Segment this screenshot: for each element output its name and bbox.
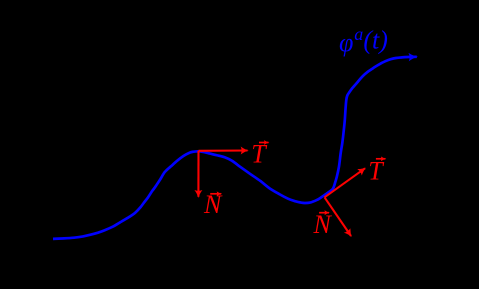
vector N2 [325,197,352,236]
wire curve phi^a(t) [53,57,417,239]
svg-text:T: T [368,157,384,186]
svg-text:a: a [354,24,363,44]
svg-text:N: N [313,210,333,239]
label T1 [251,140,268,169]
svg-text:(t): (t) [363,25,388,54]
svg-text:T: T [251,140,267,169]
svg-text:φ: φ [339,28,353,57]
vector N1 [197,151,199,197]
label N1 [203,190,223,219]
label N2 [313,210,333,239]
label T2 [368,157,385,186]
vector T2 [325,168,366,197]
vector T1 [199,149,248,151]
label phi^a(t) [339,24,388,57]
